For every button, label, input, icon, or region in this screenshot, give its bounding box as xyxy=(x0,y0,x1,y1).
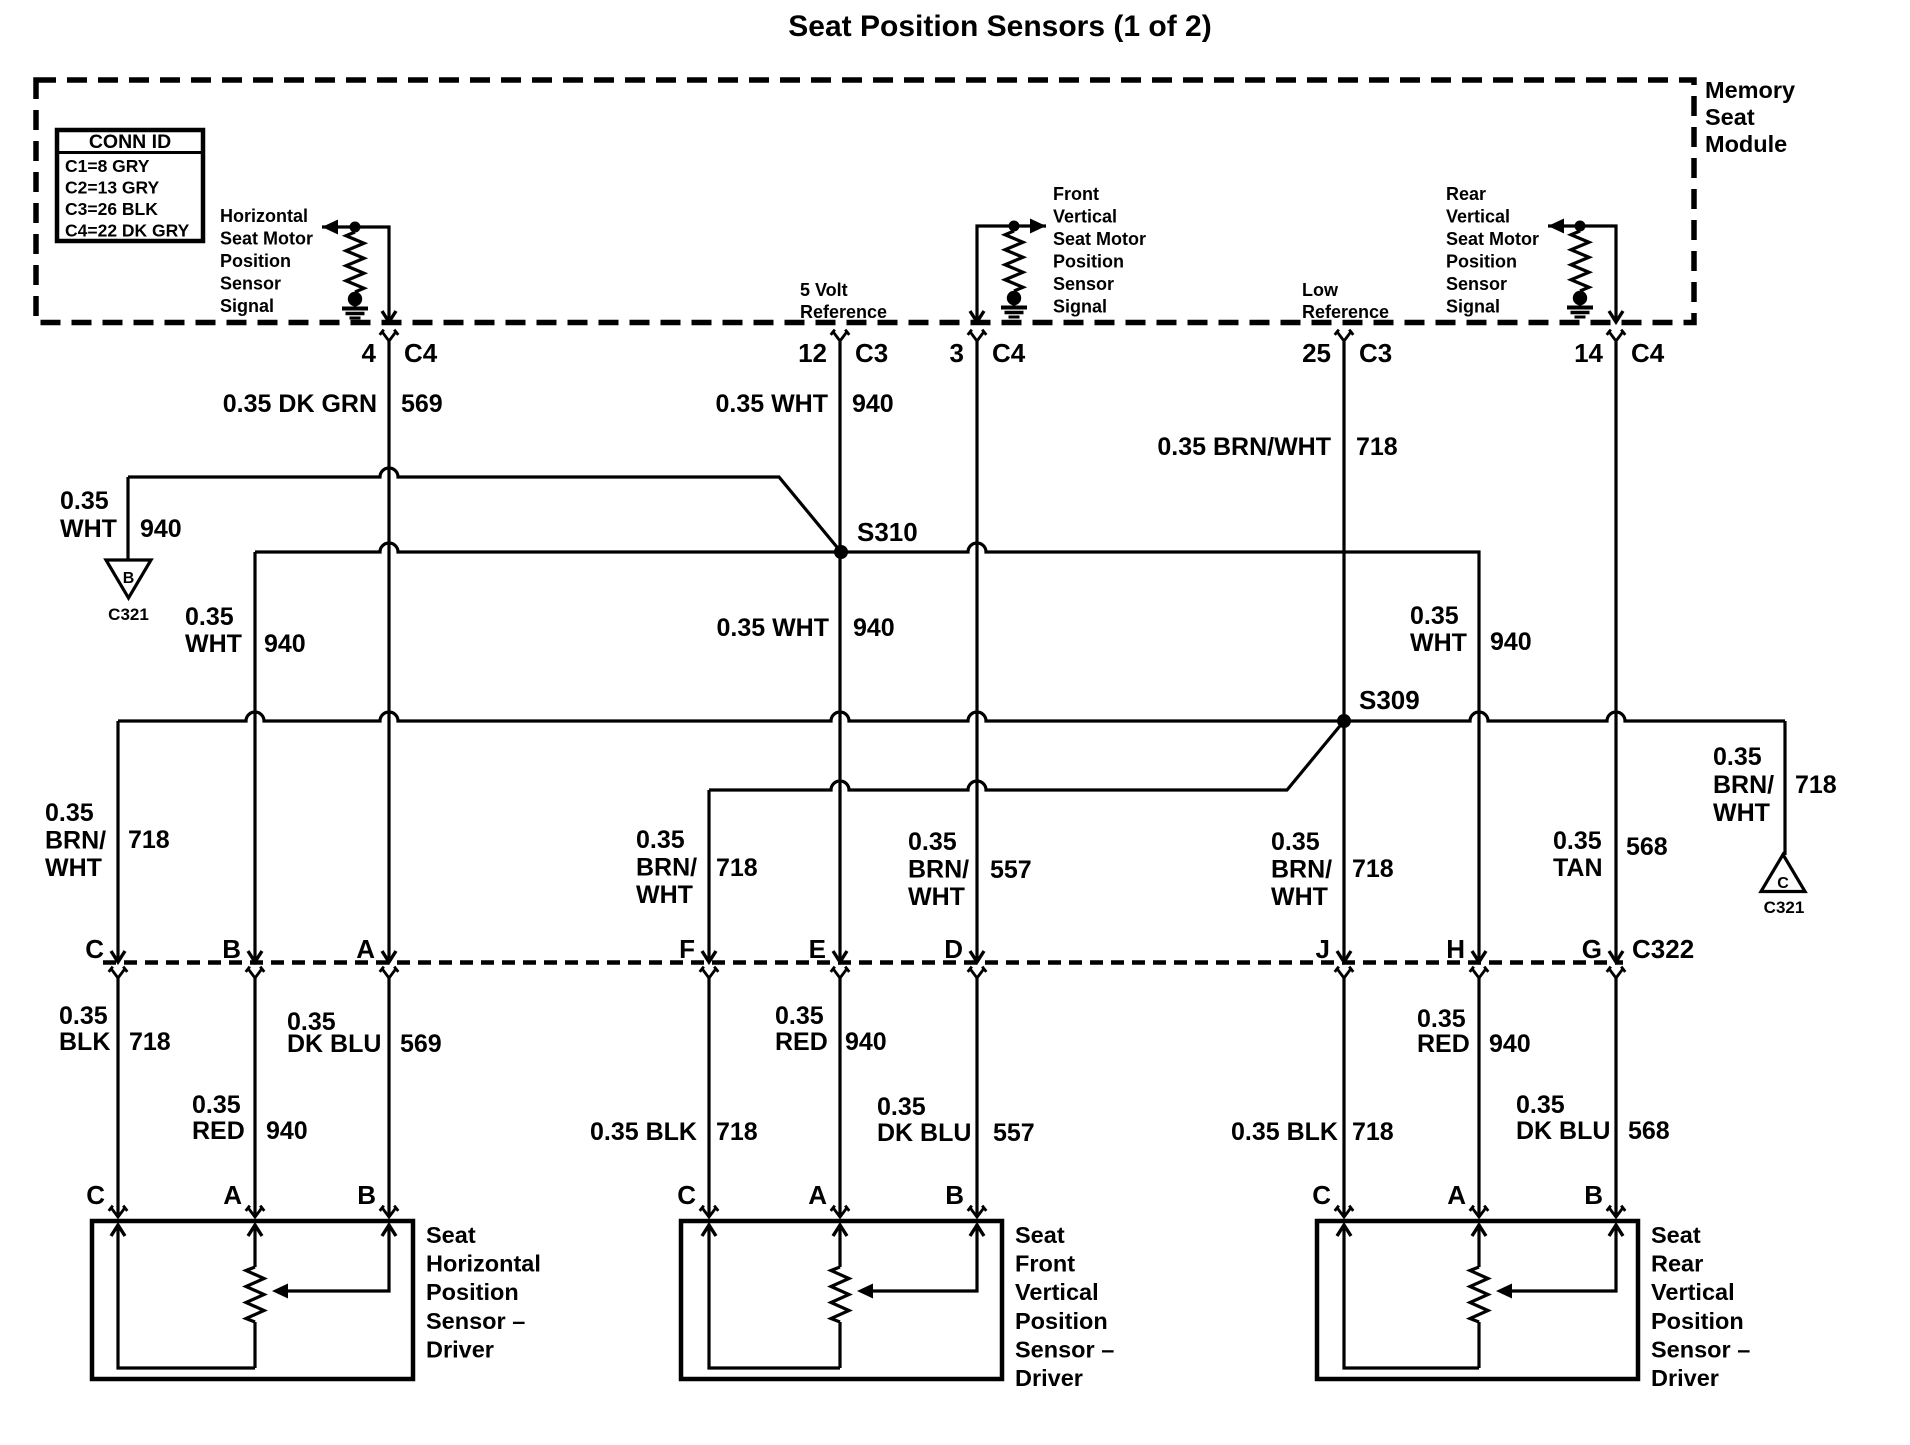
svg-text:25: 25 xyxy=(1302,338,1331,368)
ground motor3 xyxy=(1567,291,1593,317)
svg-text:C3=26 BLK: C3=26 BLK xyxy=(65,199,158,219)
svg-text:Position: Position xyxy=(1651,1308,1744,1334)
wiper wire from pin B xyxy=(287,1225,389,1291)
svg-text:C1=8 GRY: C1=8 GRY xyxy=(65,156,150,176)
svg-text:0.35: 0.35 xyxy=(908,828,957,856)
svg-text:C: C xyxy=(85,934,104,964)
svg-text:0.35: 0.35 xyxy=(1553,827,1602,855)
sensor connector chevron at 840 xyxy=(831,1206,850,1217)
sensor connector chevron at 255 xyxy=(246,1206,265,1217)
svg-text:940: 940 xyxy=(1490,628,1532,656)
wire pin A to resistor xyxy=(253,1225,256,1267)
resistor motor3 xyxy=(1571,231,1589,291)
label 0.35 BRN/WHT 718 (column C) xyxy=(45,799,170,882)
connector pin 14 C4 xyxy=(1574,330,1665,368)
wiper arrow xyxy=(1496,1284,1512,1299)
svg-text:G: G xyxy=(1582,934,1602,964)
svg-text:WHT: WHT xyxy=(45,854,102,882)
svg-text:S310: S310 xyxy=(857,517,918,547)
CONN ID table xyxy=(57,130,203,241)
connector C322 dashed line xyxy=(103,960,1623,965)
label 0.35 DK BLU 557 (below C322, D) xyxy=(877,1093,1035,1147)
svg-text:718: 718 xyxy=(1356,433,1398,461)
sensor connector chevron at 1616 xyxy=(1607,1206,1626,1217)
svg-text:Rear: Rear xyxy=(1446,184,1486,204)
label 0.35 BRN/WHT 557 (column D) xyxy=(908,828,1032,911)
label 0.35 BLK 718 (below C322, J) xyxy=(1231,1118,1394,1146)
C322 pin C xyxy=(85,934,127,978)
arrow motor2 (to sensor label) xyxy=(1030,219,1046,234)
Memory Seat Module dashed outline xyxy=(36,80,1694,323)
label 0.35 TAN 568 (column G) xyxy=(1553,827,1668,882)
wire RED 940 from C322 to sensor xyxy=(838,978,841,1217)
svg-text:0.35: 0.35 xyxy=(877,1093,926,1121)
label 0.35 RED 940 (below C322, B) xyxy=(192,1091,308,1145)
svg-text:Vertical: Vertical xyxy=(1651,1279,1735,1305)
svg-text:4: 4 xyxy=(362,338,377,368)
svg-text:C: C xyxy=(86,1180,105,1210)
sensor box: Seat Front Vertical Position Sensor - Driver xyxy=(681,1221,1002,1379)
svg-text:0.35: 0.35 xyxy=(1417,1005,1466,1033)
connector C321 pin C (triangle) xyxy=(1761,855,1805,893)
wire DK BLU 557 from C322 to sensor xyxy=(975,978,978,1217)
label Low Reference xyxy=(1302,280,1389,322)
svg-text:0.35: 0.35 xyxy=(636,826,685,854)
svg-text:Sensor: Sensor xyxy=(1053,274,1114,294)
svg-text:C4=22 DK GRY: C4=22 DK GRY xyxy=(65,221,190,241)
C322 pin H xyxy=(1446,934,1488,978)
svg-text:Signal: Signal xyxy=(1053,297,1107,317)
svg-text:Position: Position xyxy=(1053,252,1124,272)
svg-text:0.35 BLK: 0.35 BLK xyxy=(1231,1118,1338,1146)
svg-text:0.35: 0.35 xyxy=(59,1002,108,1030)
svg-text:0.35: 0.35 xyxy=(1713,743,1762,771)
label 0.35 WHT 940 (column B) xyxy=(185,603,306,658)
svg-text:Seat: Seat xyxy=(1705,104,1755,130)
svg-text:Seat: Seat xyxy=(1651,1222,1701,1248)
svg-text:Seat Motor: Seat Motor xyxy=(1053,229,1146,249)
label Seat Rear Vertical Position Sensor - Driver xyxy=(1651,1222,1750,1391)
wire BRN/WHT 718 down to C322 xyxy=(707,790,710,959)
wire WHT 940 down to C322 xyxy=(1477,716,1480,959)
svg-text:Front: Front xyxy=(1015,1251,1075,1277)
svg-text:718: 718 xyxy=(1352,1118,1394,1146)
svg-text:Vertical: Vertical xyxy=(1015,1279,1099,1305)
svg-text:Front: Front xyxy=(1053,184,1099,204)
svg-text:C4: C4 xyxy=(404,338,438,368)
svg-text:718: 718 xyxy=(716,854,758,882)
label Seat Horizontal Position Sensor - Driver xyxy=(426,1222,541,1362)
svg-text:BRN/: BRN/ xyxy=(1271,856,1332,884)
potentiometer resistor xyxy=(246,1267,264,1322)
C322 pin D xyxy=(944,934,986,978)
wire WHT 940 down to C322 xyxy=(253,552,256,959)
label 0.35 WHT 940 (column E mid) xyxy=(716,614,894,642)
label 0.35 BRN/WHT 718 (C321-C branch) xyxy=(1713,743,1837,827)
label 0.35 DK BLU 569 (below C322, A) xyxy=(287,1008,442,1058)
wire BRN/WHT 557 down to C322 xyxy=(975,341,978,959)
svg-text:RED: RED xyxy=(192,1117,245,1145)
resistor motor1 xyxy=(346,232,364,292)
sensor box: Seat Rear Vertical Position Sensor - Driver xyxy=(1317,1221,1638,1379)
junction dot motor2 xyxy=(1009,221,1020,232)
svg-text:3: 3 xyxy=(950,338,964,368)
label 0.35 BLK 718 (below C322, C) xyxy=(59,1002,171,1056)
svg-text:Position: Position xyxy=(1446,252,1517,272)
svg-text:568: 568 xyxy=(1628,1117,1670,1145)
svg-text:5 Volt: 5 Volt xyxy=(800,280,848,300)
svg-text:0.35: 0.35 xyxy=(185,603,234,631)
sensor connector chevron at 977 xyxy=(968,1206,987,1217)
potentiometer resistor xyxy=(831,1267,849,1322)
arrow motor3 (to sensor label) xyxy=(1548,219,1564,234)
svg-text:0.35 BRN/WHT: 0.35 BRN/WHT xyxy=(1157,433,1331,461)
junction dot motor3 xyxy=(1575,221,1586,232)
label Rear Vertical Seat Motor Position Sensor Signal xyxy=(1446,184,1539,317)
svg-text:TAN: TAN xyxy=(1553,854,1603,882)
svg-text:B: B xyxy=(222,934,241,964)
sensor connector chevron at 709 xyxy=(700,1206,719,1217)
svg-text:Driver: Driver xyxy=(1015,1365,1083,1391)
svg-text:940: 940 xyxy=(266,1117,308,1145)
svg-text:0.35 WHT: 0.35 WHT xyxy=(716,614,829,642)
label 0.35 DK GRN 569 xyxy=(223,390,443,418)
wire pin C to resistor low end xyxy=(1344,1225,1479,1368)
svg-text:C: C xyxy=(677,1180,696,1210)
svg-text:0.35 WHT: 0.35 WHT xyxy=(715,390,828,418)
C322 pin G xyxy=(1582,934,1626,978)
connector pin 25 C3 xyxy=(1302,330,1392,368)
svg-text:C: C xyxy=(1312,1180,1331,1210)
svg-text:14: 14 xyxy=(1574,338,1603,368)
ground motor2 xyxy=(1001,291,1027,317)
svg-text:BRN/: BRN/ xyxy=(1713,771,1774,799)
wire DK GRN 569 down to C322 xyxy=(387,341,390,959)
svg-text:Sensor: Sensor xyxy=(220,274,281,294)
svg-text:BRN/: BRN/ xyxy=(45,827,106,855)
svg-text:C4: C4 xyxy=(992,338,1026,368)
svg-text:Vertical: Vertical xyxy=(1446,207,1510,227)
svg-text:0.35: 0.35 xyxy=(45,799,94,827)
label Horizontal Seat Motor Position Sensor Signal xyxy=(220,206,313,316)
wire BLK 718 from C322 to sensor xyxy=(116,978,119,1217)
wire circuit 940 bus (line B) through S310 xyxy=(255,543,1479,716)
svg-text:718: 718 xyxy=(1795,771,1837,799)
sensor pin letters C A B xyxy=(677,1180,964,1210)
svg-text:0.35: 0.35 xyxy=(1516,1091,1565,1119)
sensor connector chevron at 389 xyxy=(380,1206,399,1217)
sensor connector chevron at 1479 xyxy=(1470,1206,1489,1217)
wire pin C to resistor low end xyxy=(709,1225,840,1368)
label 0.35 BLK 718 (below C322, F) xyxy=(590,1118,758,1146)
wire 940 stub to connector C321-B xyxy=(126,477,129,561)
C322 pin F xyxy=(679,934,718,978)
svg-text:12: 12 xyxy=(798,338,827,368)
C322 pin J xyxy=(1316,934,1354,978)
svg-text:0.35: 0.35 xyxy=(1271,828,1320,856)
wire circuit 718 branch (line D) to S309 xyxy=(709,721,1344,790)
svg-text:Sensor –: Sensor – xyxy=(1015,1336,1114,1362)
label 0.35 WHT 940 (column H) xyxy=(1410,602,1532,657)
svg-text:0.35: 0.35 xyxy=(60,487,109,515)
wiper wire from pin B xyxy=(1511,1225,1616,1291)
svg-text:Position: Position xyxy=(1015,1308,1108,1334)
svg-text:Position: Position xyxy=(220,251,291,271)
wire BRN/WHT 718 down to C322 xyxy=(116,721,119,959)
svg-text:0.35: 0.35 xyxy=(775,1002,824,1030)
label 0.35 BRN/WHT 718 (pin 25) xyxy=(1157,433,1397,461)
svg-text:WHT: WHT xyxy=(185,630,242,658)
svg-text:J: J xyxy=(1316,934,1330,964)
sensor connector chevron at 118 xyxy=(109,1206,128,1217)
svg-text:DK BLU: DK BLU xyxy=(877,1119,971,1147)
svg-text:Module: Module xyxy=(1705,131,1787,157)
sensor pin letters C A B xyxy=(1312,1180,1603,1210)
svg-text:Sensor –: Sensor – xyxy=(426,1308,525,1334)
svg-text:B: B xyxy=(945,1180,964,1210)
svg-text:B: B xyxy=(1584,1180,1603,1210)
connector pin 4 C4 xyxy=(362,330,438,368)
svg-text:940: 940 xyxy=(845,1028,887,1056)
sensor connector chevron at 1344 xyxy=(1335,1206,1354,1217)
svg-text:RED: RED xyxy=(775,1028,828,1056)
svg-text:0.35: 0.35 xyxy=(192,1091,241,1119)
wiper wire from pin B xyxy=(872,1225,977,1291)
svg-text:A: A xyxy=(356,934,375,964)
pin entry arrows inside box xyxy=(111,1225,396,1236)
svg-text:Position: Position xyxy=(426,1279,519,1305)
wire BRN/WHT 718 down to C322 xyxy=(1342,341,1345,959)
svg-text:Signal: Signal xyxy=(1446,297,1500,317)
svg-text:DK BLU: DK BLU xyxy=(287,1030,381,1058)
wire motor3 output to pin 14 xyxy=(1548,226,1616,319)
splice S310 xyxy=(834,545,848,559)
svg-text:940: 940 xyxy=(264,630,306,658)
wire 718 stub to connector C321-C xyxy=(1783,721,1786,855)
potentiometer resistor xyxy=(1470,1267,1488,1322)
svg-text:Seat Motor: Seat Motor xyxy=(1446,229,1539,249)
svg-text:568: 568 xyxy=(1626,833,1668,861)
svg-text:718: 718 xyxy=(128,826,170,854)
wire motor2 output to pin 3 xyxy=(977,226,1046,319)
wire pin A to resistor xyxy=(838,1225,841,1267)
label 0.35 RED 940 (below C322, E) xyxy=(775,1002,887,1056)
arrow motor1 (to sensor label) xyxy=(322,220,338,235)
svg-text:DK BLU: DK BLU xyxy=(1516,1117,1610,1145)
label Seat Front Vertical Position Sensor - Driver xyxy=(1015,1222,1114,1391)
wire TAN 568 down to C322 xyxy=(1614,341,1617,959)
svg-text:Vertical: Vertical xyxy=(1053,207,1117,227)
label 0.35 BRN/WHT 718 (column F) xyxy=(636,826,758,909)
C322 pin E xyxy=(809,934,850,978)
C322 pin A xyxy=(356,934,398,978)
svg-text:557: 557 xyxy=(990,856,1032,884)
svg-text:CONN ID: CONN ID xyxy=(89,131,171,153)
svg-text:718: 718 xyxy=(716,1118,758,1146)
connector pin 12 C3 xyxy=(798,330,888,368)
connector pin 3 C4 xyxy=(950,330,1026,368)
svg-text:Driver: Driver xyxy=(426,1336,494,1362)
wire DK BLU 569 from C322 to sensor xyxy=(387,978,390,1217)
svg-text:WHT: WHT xyxy=(1271,883,1328,911)
wire RED 940 from C322 to sensor xyxy=(1477,978,1480,1217)
svg-text:Seat: Seat xyxy=(426,1222,476,1248)
label 0.35 DK BLU 568 (below C322, G) xyxy=(1516,1091,1670,1145)
svg-text:D: D xyxy=(944,934,963,964)
wiper arrow xyxy=(272,1284,288,1299)
svg-text:Reference: Reference xyxy=(1302,302,1389,322)
svg-text:940: 940 xyxy=(1489,1030,1531,1058)
svg-text:F: F xyxy=(679,934,695,964)
wire pin A to resistor xyxy=(1477,1225,1480,1267)
svg-text:569: 569 xyxy=(401,390,443,418)
wire motor1 output to pin 4 xyxy=(322,227,389,319)
svg-text:E: E xyxy=(809,934,826,964)
wire resistor low end xyxy=(253,1322,256,1368)
svg-text:C4: C4 xyxy=(1631,338,1665,368)
wire RED 940 from C322 to sensor xyxy=(253,978,256,1217)
wire DK BLU 568 from C322 to sensor xyxy=(1614,978,1617,1217)
svg-text:Seat Position Sensors (1 of 2): Seat Position Sensors (1 of 2) xyxy=(788,10,1211,43)
label 0.35 WHT 940 (pin 12) xyxy=(715,390,893,418)
svg-text:C321: C321 xyxy=(1764,898,1805,917)
svg-text:0.35: 0.35 xyxy=(1410,602,1459,630)
splice S309 xyxy=(1337,714,1351,728)
svg-text:569: 569 xyxy=(400,1030,442,1058)
svg-text:Horizontal: Horizontal xyxy=(426,1251,541,1277)
wire WHT 940 down to C322 xyxy=(838,341,841,959)
wire resistor low end xyxy=(1477,1322,1480,1368)
svg-text:Sensor –: Sensor – xyxy=(1651,1336,1750,1362)
svg-text:A: A xyxy=(223,1180,242,1210)
svg-text:C2=13 GRY: C2=13 GRY xyxy=(65,178,160,198)
svg-text:Reference: Reference xyxy=(800,302,887,322)
wire circuit 718 bus (line C) through S309 xyxy=(118,712,1785,721)
svg-text:WHT: WHT xyxy=(908,883,965,911)
svg-text:940: 940 xyxy=(852,390,894,418)
svg-text:Horizontal: Horizontal xyxy=(220,206,308,226)
svg-text:C3: C3 xyxy=(855,338,888,368)
svg-text:Driver: Driver xyxy=(1651,1365,1719,1391)
pin entry arrows inside box xyxy=(1337,1225,1623,1236)
svg-text:H: H xyxy=(1446,934,1465,964)
svg-text:Rear: Rear xyxy=(1651,1251,1703,1277)
pin entry arrows inside box xyxy=(702,1225,984,1236)
svg-text:0.35 DK GRN: 0.35 DK GRN xyxy=(223,390,377,418)
wire BLK 718 from C322 to sensor xyxy=(707,978,710,1217)
label 0.35 RED 940 (below C322, H) xyxy=(1417,1005,1531,1058)
C322 pin B xyxy=(222,934,264,978)
wire pin C to resistor low end xyxy=(118,1225,255,1368)
svg-text:C321: C321 xyxy=(108,605,149,624)
svg-text:BRN/: BRN/ xyxy=(908,856,969,884)
svg-text:BRN/: BRN/ xyxy=(636,854,697,882)
wiper arrow xyxy=(857,1284,873,1299)
svg-text:Signal: Signal xyxy=(220,296,274,316)
svg-text:B: B xyxy=(357,1180,376,1210)
svg-text:RED: RED xyxy=(1417,1030,1470,1058)
svg-text:940: 940 xyxy=(140,515,182,543)
svg-text:557: 557 xyxy=(993,1119,1035,1147)
junction dot motor1 xyxy=(350,222,361,233)
svg-text:Sensor: Sensor xyxy=(1446,274,1507,294)
label 0.35 WHT 940 (C321-B branch) xyxy=(60,487,182,543)
wire circuit 940 branch to C321-B (line A) xyxy=(128,468,841,552)
svg-text:C3: C3 xyxy=(1359,338,1392,368)
svg-text:940: 940 xyxy=(853,614,895,642)
svg-text:718: 718 xyxy=(129,1028,171,1056)
svg-text:C: C xyxy=(1777,875,1789,892)
ground motor1 xyxy=(342,292,368,318)
svg-text:WHT: WHT xyxy=(60,515,117,543)
svg-text:WHT: WHT xyxy=(1410,629,1467,657)
svg-text:BLK: BLK xyxy=(59,1028,110,1056)
sensor box: Seat Horizontal Position Sensor - Driver xyxy=(92,1221,413,1379)
label 0.35 BRN/WHT 718 (column J) xyxy=(1271,828,1394,911)
svg-text:C322: C322 xyxy=(1632,934,1694,964)
svg-text:WHT: WHT xyxy=(636,881,693,909)
svg-text:A: A xyxy=(1447,1180,1466,1210)
svg-text:A: A xyxy=(808,1180,827,1210)
svg-text:0.35 BLK: 0.35 BLK xyxy=(590,1118,697,1146)
svg-text:718: 718 xyxy=(1352,855,1394,883)
svg-text:Low: Low xyxy=(1302,280,1339,300)
svg-text:Seat: Seat xyxy=(1015,1222,1065,1248)
svg-text:B: B xyxy=(123,570,135,587)
wire BLK 718 from C322 to sensor xyxy=(1342,978,1345,1217)
label Front Vertical Seat Motor Position Sensor Signal xyxy=(1053,184,1146,317)
label Memory Seat Module xyxy=(1705,77,1795,157)
connector C321 pin B (triangle) xyxy=(106,560,151,598)
svg-text:WHT: WHT xyxy=(1713,799,1770,827)
svg-text:S309: S309 xyxy=(1359,685,1420,715)
svg-text:Memory: Memory xyxy=(1705,77,1795,103)
resistor motor2 xyxy=(1005,231,1023,291)
label 5 Volt Reference xyxy=(800,280,887,322)
svg-text:Seat Motor: Seat Motor xyxy=(220,229,313,249)
sensor pin letters C A B xyxy=(86,1180,376,1210)
wire resistor low end xyxy=(838,1322,841,1368)
